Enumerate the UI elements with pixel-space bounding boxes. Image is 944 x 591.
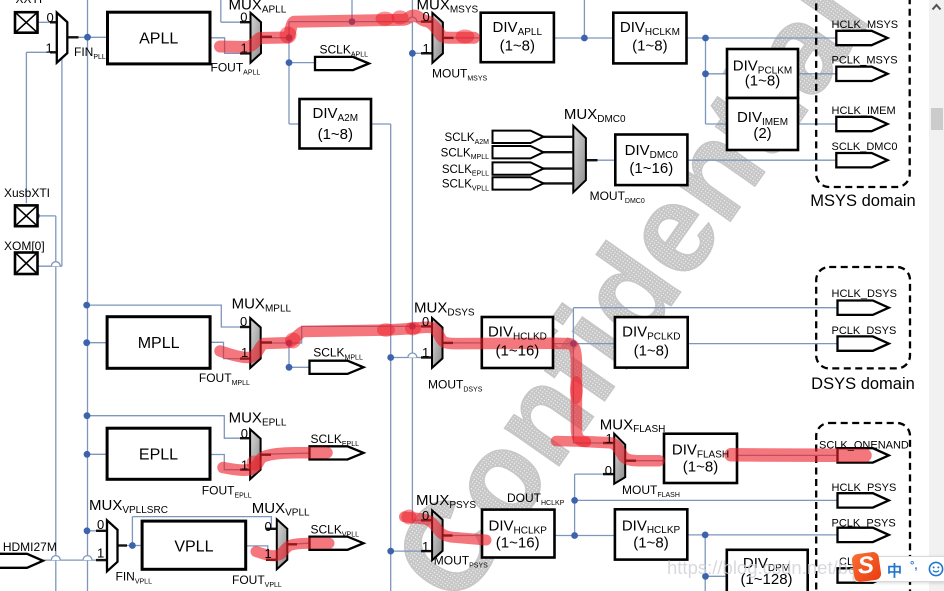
svg-text:1: 1	[423, 41, 430, 56]
svg-text:SCLKMPLL: SCLKMPLL	[313, 346, 363, 362]
svg-text:PCLK_DSYS: PCLK_DSYS	[832, 325, 897, 337]
svg-text:SCLKEPLL: SCLKEPLL	[311, 432, 360, 448]
svg-text:XOM[0]: XOM[0]	[4, 239, 45, 253]
svg-text:SCLKVPLL: SCLKVPLL	[442, 179, 489, 193]
svg-text:SCLK_DMC0: SCLK_DMC0	[832, 141, 898, 153]
svg-text:(1~8): (1~8)	[500, 38, 535, 55]
svg-text:0: 0	[47, 10, 54, 25]
svg-text:(1~16): (1~16)	[496, 535, 540, 552]
svg-text:0: 0	[240, 10, 247, 25]
svg-text:(1~8): (1~8)	[634, 343, 669, 360]
svg-text:XusbXTI: XusbXTI	[4, 186, 50, 200]
svg-text:DOUTHCLKP: DOUTHCLKP	[507, 491, 565, 507]
svg-text:PCLK_PSYS: PCLK_PSYS	[832, 518, 896, 530]
svg-text:(1~8): (1~8)	[745, 73, 780, 90]
svg-text:SCLKVPLL: SCLKVPLL	[311, 523, 360, 539]
svg-text:1: 1	[241, 41, 248, 56]
svg-text:HCLK_MSYS: HCLK_MSYS	[832, 19, 899, 31]
svg-text:1: 1	[241, 458, 248, 473]
svg-text:MOUTMSYS: MOUTMSYS	[432, 67, 487, 83]
svg-text:1: 1	[422, 539, 429, 554]
svg-text:(1~8): (1~8)	[633, 535, 668, 552]
svg-text:APLL: APLL	[139, 31, 178, 48]
svg-text:EPLL: EPLL	[139, 447, 178, 464]
svg-text:FOUTEPLL: FOUTEPLL	[202, 484, 252, 500]
svg-text:SCLKMPLL: SCLKMPLL	[441, 147, 489, 161]
svg-text:MUXAPLL: MUXAPLL	[229, 0, 287, 15]
svg-text:1: 1	[46, 41, 53, 56]
svg-text:0: 0	[97, 517, 104, 532]
svg-text:HCLK_PSYS: HCLK_PSYS	[832, 482, 897, 494]
svg-text:FOUTAPLL: FOUTAPLL	[211, 61, 261, 77]
svg-text:0: 0	[240, 314, 247, 329]
svg-text:1: 1	[97, 546, 104, 561]
svg-text:DSYS domain: DSYS domain	[811, 375, 915, 393]
svg-text:FOUTVPLL: FOUTVPLL	[232, 573, 282, 589]
svg-text:VPLL: VPLL	[174, 539, 213, 556]
svg-text:MOUTDMC0: MOUTDMC0	[590, 189, 645, 205]
svg-text:PCLK_MSYS: PCLK_MSYS	[832, 55, 898, 67]
svg-text:1: 1	[241, 345, 248, 360]
svg-text:(1~8): (1~8)	[632, 38, 667, 55]
svg-text:HCLK_DSYS: HCLK_DSYS	[832, 288, 897, 300]
svg-text:MPLL: MPLL	[138, 335, 180, 352]
svg-text:MUXEPLL: MUXEPLL	[229, 410, 287, 429]
svg-text:1: 1	[265, 546, 272, 561]
svg-text:SCLKA2M: SCLKA2M	[445, 132, 490, 146]
svg-text:MSYS domain: MSYS domain	[810, 192, 915, 210]
svg-text:1: 1	[606, 431, 613, 446]
svg-text:MOUTFLASH: MOUTFLASH	[622, 483, 680, 499]
svg-text:(1~8): (1~8)	[683, 459, 718, 476]
svg-text:XXTI_HDMI27M: XXTI_HDMI27M	[0, 540, 57, 554]
svg-text:FINVPLL: FINVPLL	[116, 570, 153, 586]
svg-text:MUXVPLL: MUXVPLL	[252, 500, 310, 519]
svg-text:XXTI: XXTI	[16, 0, 43, 6]
svg-text:SCLKAPLL: SCLKAPLL	[320, 43, 369, 59]
svg-text:MUXMPLL: MUXMPLL	[232, 296, 292, 315]
svg-text:MOUTDSYS: MOUTDSYS	[428, 378, 483, 394]
svg-text:0: 0	[605, 463, 612, 478]
svg-text:FINPLL: FINPLL	[74, 45, 106, 61]
svg-text:0: 0	[423, 9, 430, 24]
svg-text:0: 0	[241, 426, 248, 441]
svg-text:SCLK_ONENAND: SCLK_ONENAND	[819, 440, 909, 452]
svg-text:MUXDMC0: MUXDMC0	[564, 106, 626, 125]
svg-text:(2): (2)	[753, 125, 771, 142]
svg-text:(1~16): (1~16)	[496, 343, 540, 360]
svg-text:MOUTPSYS: MOUTPSYS	[434, 554, 488, 570]
svg-text:SCLKEPLL: SCLKEPLL	[442, 164, 489, 178]
svg-text:0: 0	[422, 314, 429, 329]
svg-text:(1~8): (1~8)	[318, 126, 353, 143]
svg-text:(1~16): (1~16)	[629, 160, 673, 177]
svg-text:FOUTMPLL: FOUTMPLL	[199, 371, 250, 387]
svg-text:1: 1	[422, 345, 429, 360]
svg-text:0: 0	[422, 508, 429, 523]
svg-text:HCLK_IMEM: HCLK_IMEM	[832, 105, 896, 117]
svg-text:MUXVPLLSRC: MUXVPLLSRC	[89, 497, 168, 516]
svg-text:0: 0	[265, 519, 272, 534]
